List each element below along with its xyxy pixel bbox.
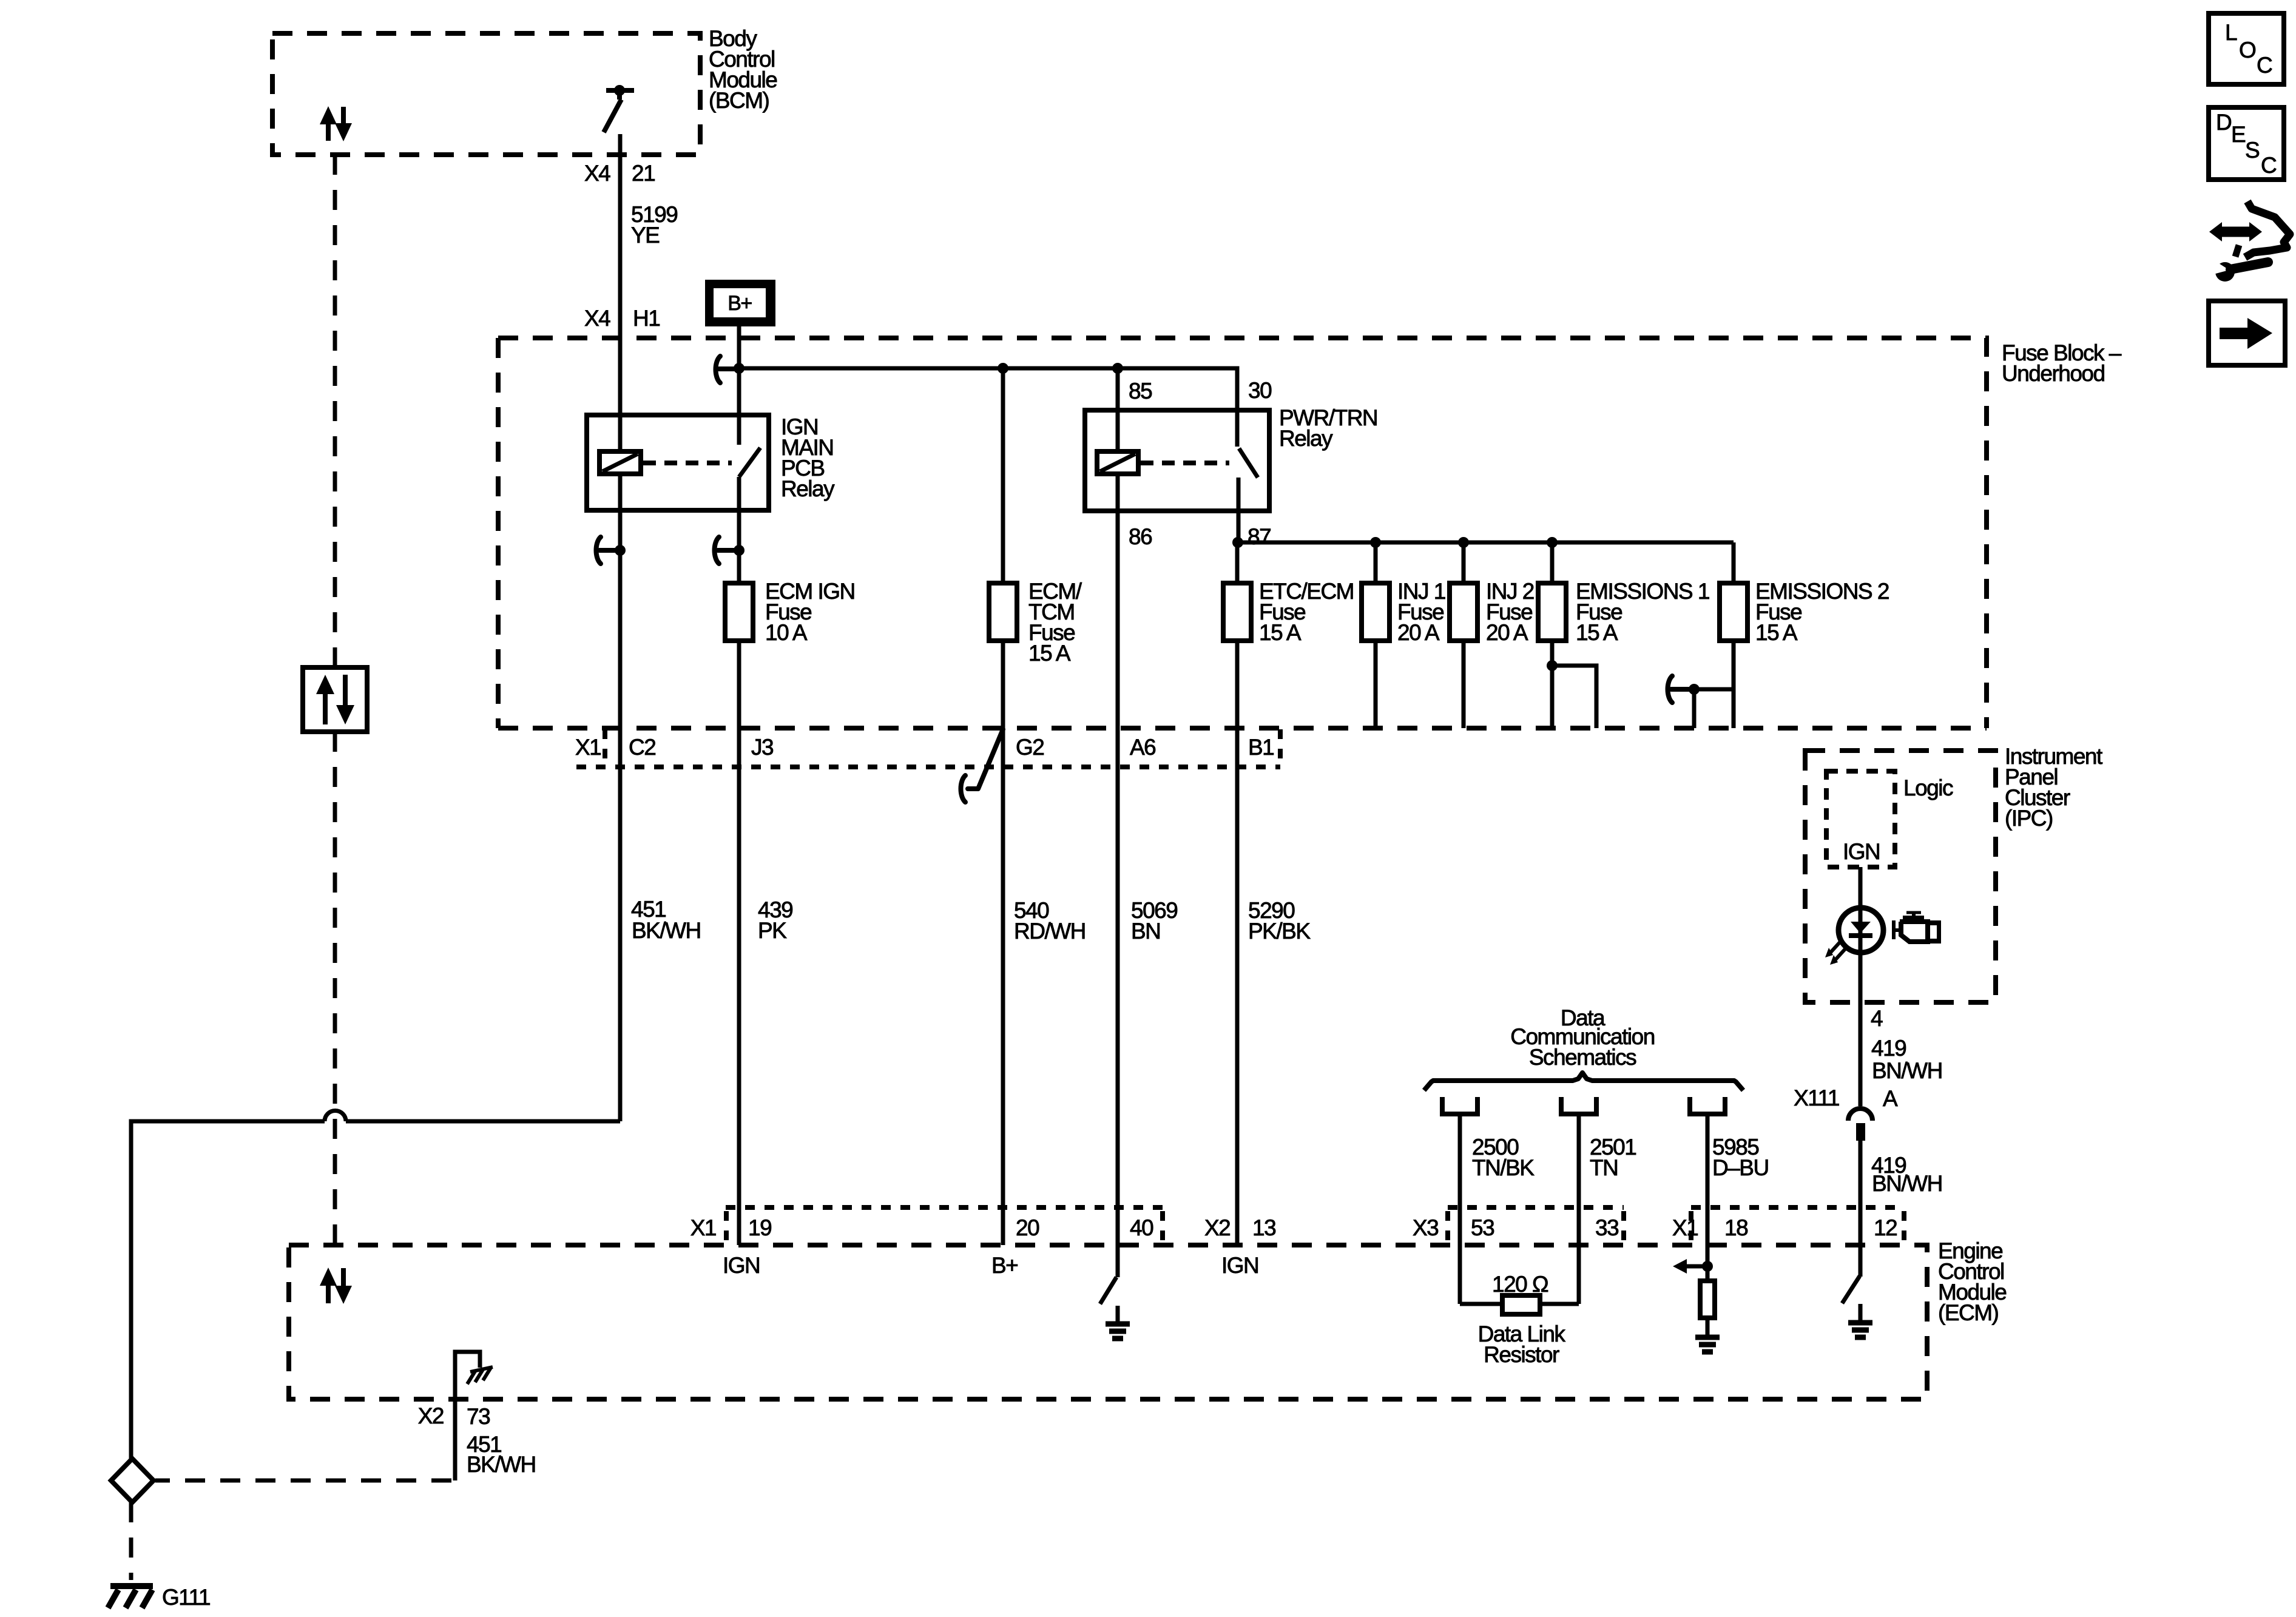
svg-text:BN/WH: BN/WH bbox=[1872, 1058, 1942, 1083]
svg-text:15 A: 15 A bbox=[1259, 620, 1302, 645]
svg-text:12: 12 bbox=[1874, 1215, 1897, 1240]
svg-text:E: E bbox=[2231, 122, 2246, 147]
svg-text:87: 87 bbox=[1248, 524, 1271, 549]
svg-text:419: 419 bbox=[1871, 1036, 1906, 1061]
svg-text:B+: B+ bbox=[728, 292, 752, 315]
svg-text:IGN: IGN bbox=[723, 1253, 760, 1278]
svg-text:B+: B+ bbox=[991, 1253, 1018, 1278]
svg-text:C2: C2 bbox=[629, 735, 655, 760]
svg-text:73: 73 bbox=[467, 1404, 490, 1429]
svg-text:X3: X3 bbox=[1413, 1215, 1438, 1240]
svg-text:B1: B1 bbox=[1248, 735, 1274, 760]
svg-text:(BCM): (BCM) bbox=[709, 88, 769, 113]
svg-text:120 Ω: 120 Ω bbox=[1492, 1272, 1548, 1297]
svg-text:Relay: Relay bbox=[1279, 426, 1333, 451]
svg-text:A: A bbox=[1883, 1086, 1898, 1111]
svg-text:(IPC): (IPC) bbox=[2005, 806, 2053, 831]
svg-text:IGN: IGN bbox=[1843, 839, 1880, 864]
svg-text:Resistor: Resistor bbox=[1484, 1342, 1559, 1367]
svg-text:IGN: IGN bbox=[1221, 1253, 1258, 1278]
svg-text:X4: X4 bbox=[584, 306, 610, 331]
svg-text:Underhood: Underhood bbox=[2002, 361, 2105, 386]
svg-text:BN/WH: BN/WH bbox=[1872, 1171, 1942, 1196]
svg-text:J3: J3 bbox=[751, 735, 773, 760]
svg-text:G111: G111 bbox=[162, 1585, 210, 1610]
svg-text:PK/BK: PK/BK bbox=[1248, 919, 1311, 944]
svg-text:O: O bbox=[2239, 38, 2256, 62]
svg-text:33: 33 bbox=[1595, 1215, 1618, 1240]
svg-text:X4: X4 bbox=[584, 161, 610, 186]
svg-text:20 A: 20 A bbox=[1397, 620, 1440, 645]
svg-text:85: 85 bbox=[1129, 379, 1152, 403]
svg-text:X111: X111 bbox=[1794, 1085, 1839, 1110]
svg-text:20 A: 20 A bbox=[1486, 620, 1528, 645]
svg-text:A6: A6 bbox=[1130, 735, 1155, 760]
svg-text:86: 86 bbox=[1129, 524, 1152, 549]
svg-text:BK/WH: BK/WH bbox=[632, 918, 701, 943]
svg-text:4: 4 bbox=[1871, 1006, 1883, 1031]
svg-text:30: 30 bbox=[1248, 378, 1272, 403]
svg-text:YE: YE bbox=[631, 223, 660, 248]
svg-text:X1: X1 bbox=[690, 1215, 716, 1240]
svg-text:TN/BK: TN/BK bbox=[1472, 1155, 1535, 1180]
svg-text:TN: TN bbox=[1590, 1155, 1618, 1180]
svg-text:BN: BN bbox=[1131, 919, 1160, 944]
svg-text:Relay: Relay bbox=[781, 476, 835, 501]
svg-text:PK: PK bbox=[758, 918, 787, 943]
svg-text:X1: X1 bbox=[1672, 1215, 1698, 1240]
svg-text:Logic: Logic bbox=[1903, 775, 1953, 800]
svg-text:Schematics: Schematics bbox=[1529, 1045, 1636, 1070]
svg-text:18: 18 bbox=[1724, 1215, 1747, 1240]
svg-text:21: 21 bbox=[632, 161, 655, 186]
svg-text:D: D bbox=[2216, 110, 2231, 135]
svg-text:BK/WH: BK/WH bbox=[467, 1452, 536, 1477]
svg-text:(ECM): (ECM) bbox=[1938, 1300, 1999, 1325]
svg-text:13: 13 bbox=[1252, 1215, 1275, 1240]
svg-text:20: 20 bbox=[1016, 1215, 1039, 1240]
svg-text:15 A: 15 A bbox=[1028, 641, 1071, 666]
svg-text:S: S bbox=[2245, 138, 2259, 163]
svg-text:X2: X2 bbox=[1204, 1215, 1230, 1240]
svg-text:53: 53 bbox=[1471, 1215, 1494, 1240]
svg-text:10 A: 10 A bbox=[765, 620, 808, 645]
svg-text:RD/WH: RD/WH bbox=[1014, 919, 1086, 944]
svg-text:15 A: 15 A bbox=[1576, 620, 1618, 645]
svg-text:G2: G2 bbox=[1016, 735, 1044, 760]
svg-text:X2: X2 bbox=[418, 1403, 444, 1428]
svg-text:15 A: 15 A bbox=[1755, 620, 1798, 645]
svg-text:X1: X1 bbox=[575, 735, 601, 760]
svg-text:D–BU: D–BU bbox=[1712, 1155, 1769, 1180]
svg-text:L: L bbox=[2225, 20, 2237, 45]
svg-text:C: C bbox=[2261, 153, 2277, 178]
svg-text:40: 40 bbox=[1130, 1215, 1153, 1240]
svg-text:19: 19 bbox=[748, 1215, 771, 1240]
svg-text:C: C bbox=[2257, 53, 2272, 78]
svg-text:H1: H1 bbox=[633, 306, 660, 331]
